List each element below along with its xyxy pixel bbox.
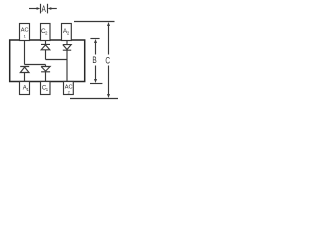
dimension A right extension line [47,4,49,14]
wire D3 anode to pin A1 [24,73,26,82]
pin AC1 (top left) [20,24,30,41]
pin AC2 (bottom right) [64,82,74,95]
diode D1 (upper middle, cathode C2, anode AC2) [41,44,50,49]
dimension C line lower segment with down arrow [108,66,110,95]
diode D4 (lower middle, anode AC1, cathode C1) [41,67,50,72]
wire stub to D4 anode [45,65,47,67]
pin C2 (top middle) [41,24,51,41]
dimension B line lower segment with down arrow [95,66,97,80]
package body [10,40,85,82]
dimension C bottom extension tick [70,98,118,100]
dimension B top extension tick [90,38,99,40]
dimension C line upper segment with up arrow [108,26,110,55]
wire AC1 vertical [24,41,26,65]
wire AC1 horizontal bus [25,64,46,66]
wire A2 vertical [66,41,68,45]
diode D3 (lower left, anode A1, cathode AC1) [20,67,29,73]
wire D4 cathode to pin C1 [45,72,47,82]
pin A1 (bottom left) [20,82,30,95]
dimension B bottom extension tick [90,83,102,85]
svg-text:C: C [105,55,110,65]
pin C1 (bottom middle) [41,82,51,95]
diode D2 (upper right, anode A2, cathode AC2) [63,45,71,51]
svg-text:B: B [92,55,96,65]
wire C2 vertical [45,41,47,45]
wire D1 anode down [45,50,47,60]
dimension A right arrow [51,8,57,10]
wire D2 cathode to pin AC2 [66,50,68,81]
dimension A left arrow [29,8,37,10]
pin A2 (top right) [62,24,72,41]
svg-text:A: A [42,4,47,14]
wire horizontal D1 to AC2 node [46,59,68,61]
dimension A left extension line [40,4,42,14]
dimension C top extension tick [74,21,115,23]
dimension B line upper segment with up arrow [95,43,97,55]
